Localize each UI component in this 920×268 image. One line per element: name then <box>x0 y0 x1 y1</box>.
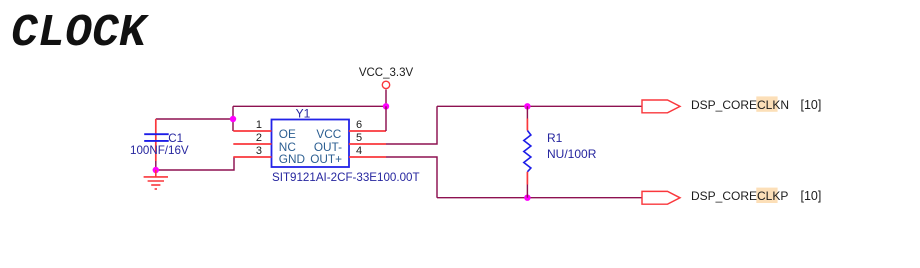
wire pin5 run <box>386 106 437 144</box>
svg-text:Y1: Y1 <box>296 106 311 120</box>
svg-text:NU/100R: NU/100R <box>547 147 597 161</box>
resistor R1 <box>524 106 531 197</box>
svg-text:VCC_3.3V: VCC_3.3V <box>359 67 414 79</box>
svg-text:2: 2 <box>256 132 262 144</box>
svg-text:5: 5 <box>356 132 362 144</box>
wire bottom run to pin3 <box>156 157 234 170</box>
svg-text:[10]: [10] <box>801 98 822 112</box>
pin 3 stub <box>233 156 271 158</box>
node junction R1 top <box>524 103 530 109</box>
svg-text:4: 4 <box>356 145 362 157</box>
net highlight CLK (bottom) <box>756 188 777 203</box>
svg-text:1: 1 <box>256 119 262 131</box>
pin 5 stub <box>349 143 386 145</box>
svg-text:GND: GND <box>279 152 305 166</box>
wire top output run <box>437 105 642 107</box>
node junction vcc <box>383 103 389 109</box>
svg-text:3: 3 <box>256 145 262 157</box>
port DSP_CORECLKP <box>642 191 680 204</box>
wire bottom output run <box>437 197 642 199</box>
wire pin4 run <box>386 157 437 198</box>
pin 4 stub <box>349 156 386 158</box>
wire pin6 to vcc <box>385 106 387 131</box>
pin 6 stub <box>349 130 386 132</box>
svg-text:OE: OE <box>279 127 296 141</box>
svg-text:R1: R1 <box>547 131 563 145</box>
svg-text:[10]: [10] <box>801 189 822 203</box>
node junction gnd <box>153 167 159 173</box>
pin 2 stub <box>233 143 271 145</box>
wire cap branch <box>156 118 233 120</box>
pin 1 stub <box>233 130 271 132</box>
port DSP_CORECLKN <box>642 100 680 113</box>
svg-text:SIT9121AI-2CF-33E100.00T: SIT9121AI-2CF-33E100.00T <box>272 171 420 184</box>
svg-text:CLOCK: CLOCK <box>11 8 150 59</box>
capacitor C1 <box>144 119 169 161</box>
svg-text:DSP_CORECLKN: DSP_CORECLKN <box>691 98 789 112</box>
svg-text:DSP_CORECLKP: DSP_CORECLKP <box>691 189 788 203</box>
wire cap bottom <box>155 161 157 170</box>
svg-text:VCC: VCC <box>316 127 341 141</box>
wire top run A <box>233 105 386 107</box>
svg-text:100NF/16V: 100NF/16V <box>130 144 189 157</box>
node junction R1 bottom <box>524 195 530 201</box>
wire VCC vertical <box>385 90 387 107</box>
node junction cap-top <box>230 116 236 122</box>
ground <box>144 170 168 189</box>
svg-text:6: 6 <box>356 119 362 131</box>
net highlight CLK (top) <box>756 96 777 111</box>
oscillator U1 box Y1 <box>272 120 350 168</box>
svg-text:OUT+: OUT+ <box>310 152 342 166</box>
wire pin1 vertical <box>232 106 234 131</box>
